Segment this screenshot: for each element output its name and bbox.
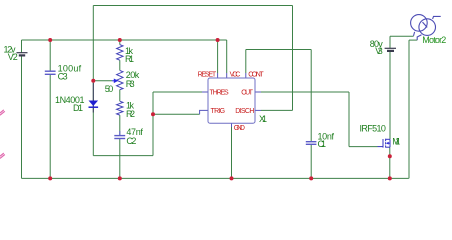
svg-text:R2: R2 — [126, 109, 135, 119]
svg-text:CONT: CONT — [248, 72, 264, 79]
svg-text:V3: V3 — [375, 46, 383, 56]
svg-text:50: 50 — [105, 84, 114, 94]
svg-text:GND: GND — [234, 125, 245, 132]
svg-text:TRIG: TRIG — [211, 108, 226, 115]
svg-text:M1: M1 — [392, 137, 400, 147]
svg-text:IRF510: IRF510 — [360, 124, 386, 134]
svg-text:C1: C1 — [318, 139, 327, 149]
svg-text:C3: C3 — [58, 71, 68, 81]
svg-text:OUT: OUT — [241, 89, 253, 96]
svg-text:THRES: THRES — [210, 89, 230, 96]
svg-text:DISCH: DISCH — [235, 108, 254, 115]
svg-text:V2: V2 — [8, 52, 18, 62]
svg-text:VCC: VCC — [230, 72, 241, 79]
svg-text:C2: C2 — [126, 136, 136, 146]
svg-text:X1: X1 — [259, 114, 267, 124]
svg-text:RESET: RESET — [198, 72, 217, 79]
svg-text:D1: D1 — [73, 103, 83, 113]
svg-text:R3: R3 — [126, 79, 135, 89]
svg-text:Motor2: Motor2 — [422, 35, 446, 45]
svg-text:R1: R1 — [125, 54, 134, 64]
